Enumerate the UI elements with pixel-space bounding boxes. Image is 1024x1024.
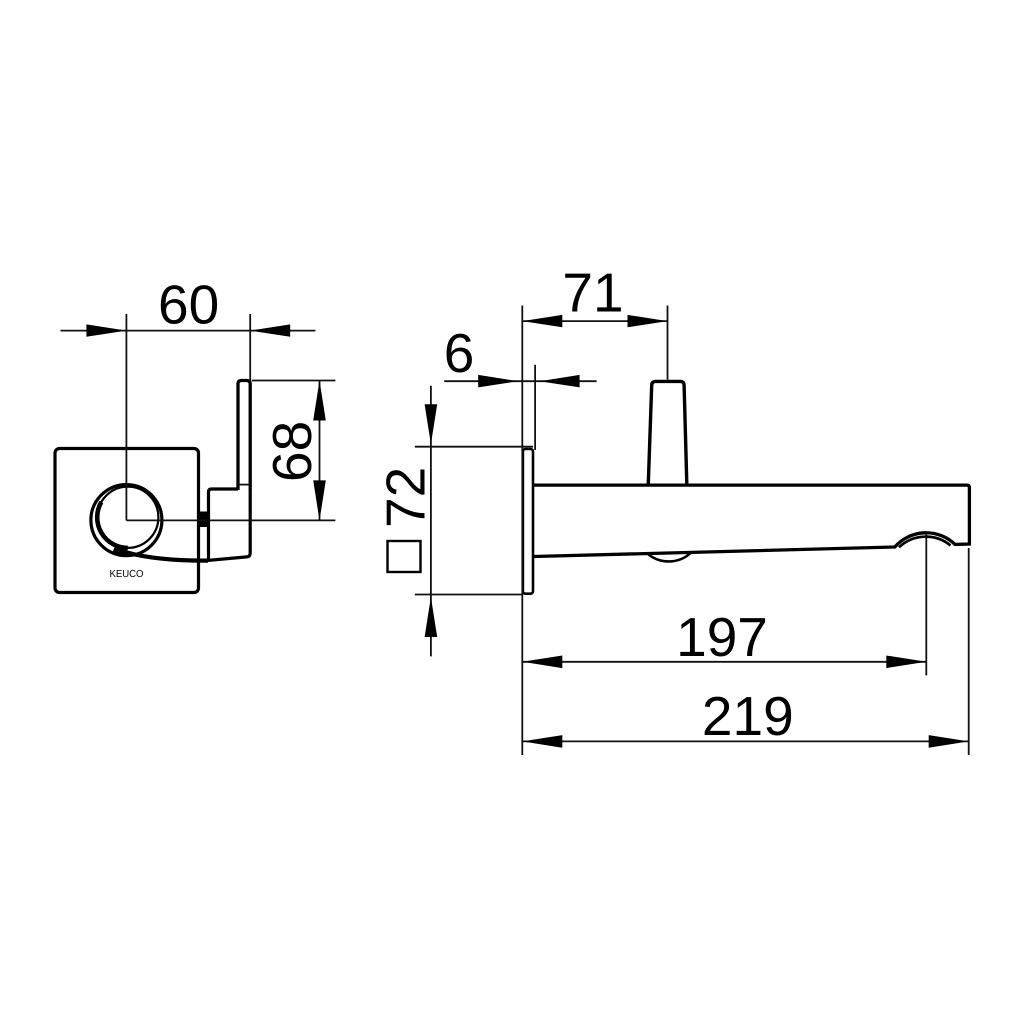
hub bottom / swoosh curve	[117, 550, 208, 561]
dim line 219	[522, 740, 968, 742]
knob inner thick lower-left arc	[97, 502, 128, 548]
ext line bottom (knob centre)	[126, 519, 335, 521]
rosette (side)	[523, 449, 533, 594]
square symbol	[388, 541, 421, 572]
dim line 6	[444, 380, 596, 382]
handle lever (side, tapered)	[648, 381, 687, 483]
ext line top (rosette top)	[415, 446, 533, 448]
lever base line (front)	[238, 484, 250, 486]
ext line bottom (rosette bottom)	[415, 594, 523, 596]
spout body outline	[534, 485, 969, 556]
dim line 197	[522, 661, 926, 663]
ext line top (lever top)	[252, 380, 336, 382]
arrow 71 left	[522, 315, 562, 327]
dim line 68	[319, 381, 321, 521]
arrow 197 right	[886, 656, 926, 669]
connector block plate-to-hub (solid)	[199, 512, 207, 528]
ext line right (outlet)	[925, 534, 927, 675]
knob outer circle	[91, 485, 162, 556]
arrow 6 right	[540, 375, 580, 388]
lever grip (front, vertical)	[238, 381, 250, 491]
ext line right (spout tip)	[968, 548, 970, 755]
handle hub (front)	[209, 489, 251, 560]
ext line right (rosette rear face)	[534, 365, 536, 450]
ext line left (knob centre)	[125, 314, 127, 520]
outlet hump inner arc	[899, 537, 951, 548]
svg-text:72: 72	[375, 467, 437, 528]
dim line 72	[430, 386, 432, 657]
arrow 219 left	[522, 735, 562, 748]
arrow 72 bottom	[425, 597, 438, 637]
under-spout cartridge arc	[647, 552, 692, 562]
arrow 72 top	[425, 404, 438, 444]
svg-text:60: 60	[158, 274, 219, 336]
swoosh start blob	[114, 550, 127, 555]
dim line 71	[522, 320, 667, 322]
svg-text:6: 6	[444, 322, 475, 384]
arrow 68 top	[313, 381, 326, 421]
arrow 60 left	[86, 324, 126, 336]
knob inner circle	[97, 487, 158, 548]
arrow 60 right	[250, 324, 290, 336]
arrow 197 left	[522, 656, 562, 669]
arrow 71 right	[628, 315, 668, 327]
arrow 68 bottom	[313, 480, 326, 520]
svg-text:71: 71	[562, 262, 623, 324]
ext line right (lever edge)	[249, 314, 251, 381]
svg-text:219: 219	[702, 685, 794, 747]
ext line right (handle centre)	[667, 306, 669, 380]
arrow 219 right	[929, 735, 969, 748]
svg-text:KEUCO: KEUCO	[110, 569, 144, 580]
dim line 60	[61, 330, 316, 332]
svg-text:68: 68	[261, 421, 323, 482]
arrow 6 left	[478, 375, 518, 388]
svg-text:197: 197	[676, 606, 768, 668]
wall plate (front)	[55, 449, 199, 593]
